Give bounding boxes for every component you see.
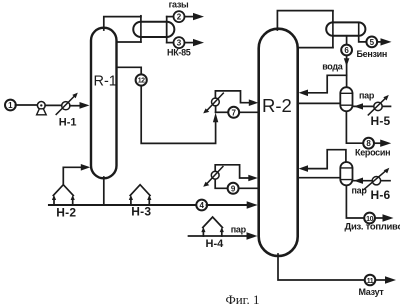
wire 9 to exchanger xyxy=(215,179,227,188)
heat exchanger at 9 xyxy=(203,167,223,187)
wire to stream 2 xyxy=(167,16,174,18)
svg-text:1: 1 xyxy=(8,101,13,110)
svg-text:3: 3 xyxy=(177,39,182,48)
svg-text:Фиг. 1: Фиг. 1 xyxy=(225,292,259,307)
node stream 4 xyxy=(196,200,207,211)
label газы xyxy=(169,0,189,10)
wire R-1 bottoms down xyxy=(103,177,105,205)
label R-2 xyxy=(262,95,292,116)
label вода xyxy=(322,62,344,72)
wire arrow out stream 8 xyxy=(374,140,391,147)
label пар (H-4) xyxy=(231,225,247,235)
svg-text:Н-5: Н-5 xyxy=(371,114,391,128)
wire E2 bottom to stream 6 xyxy=(346,36,348,45)
furnace H-4 xyxy=(201,217,224,236)
svg-text:Н-1: Н-1 xyxy=(59,117,77,129)
column R-1 xyxy=(91,28,117,179)
label Керосин xyxy=(355,148,390,158)
svg-text:5: 5 xyxy=(370,38,375,47)
node stream 7 xyxy=(228,107,239,118)
wire S2 bottoms to stream 10 xyxy=(346,185,364,218)
label пар (H-5) xyxy=(359,90,375,100)
svg-text:Бензин: Бензин xyxy=(357,49,388,59)
node stream 2 xyxy=(174,11,185,22)
svg-text:2: 2 xyxy=(177,13,182,22)
svg-text:НК-85: НК-85 xyxy=(167,48,191,58)
wire 12 down and right xyxy=(141,86,215,144)
wire steam H-4 into R-2 xyxy=(189,232,258,239)
node stream 11 xyxy=(365,275,376,286)
stripper S2 xyxy=(340,162,352,185)
wire feed into R-1 xyxy=(70,102,90,109)
condenser E1 xyxy=(133,22,174,37)
label НК-85 xyxy=(167,48,191,58)
node stream 5 xyxy=(366,37,377,48)
heat exchanger at 7 xyxy=(203,93,223,113)
wire 4 into R-2 xyxy=(207,201,258,208)
wire to stream 3 xyxy=(167,42,174,44)
wire stream 1 to pump xyxy=(15,104,37,106)
wire R-1 overhead riser xyxy=(104,17,141,30)
column R-2 xyxy=(259,29,298,256)
wire arrow out stream 10 xyxy=(375,214,394,221)
svg-text:4: 4 xyxy=(199,201,204,210)
wire arrow out stream 3 xyxy=(185,39,205,46)
wire arrow out stream 11 xyxy=(375,276,396,283)
label Диз. топливо xyxy=(345,222,400,233)
svg-text:Мазут: Мазут xyxy=(359,287,385,297)
svg-text:R-2: R-2 xyxy=(262,95,292,116)
svg-text:12: 12 xyxy=(138,78,145,85)
wire S1 vapor return to R-2 xyxy=(299,75,347,96)
svg-text:пар: пар xyxy=(231,225,247,235)
svg-text:пар: пар xyxy=(352,186,368,196)
wire S2 vapor return to R-2 xyxy=(299,150,346,172)
heater H-5 xyxy=(368,95,389,115)
wire R-2 draw to S1 xyxy=(298,102,341,104)
label Н-3 xyxy=(131,205,151,219)
svg-text:Н-4: Н-4 xyxy=(206,238,225,250)
wire junction to stream 7 xyxy=(216,111,229,113)
wire steam into S1 xyxy=(353,103,391,109)
label Н-4 xyxy=(206,238,225,250)
wire steam into S2 xyxy=(353,178,391,184)
svg-text:Н-3: Н-3 xyxy=(131,205,151,219)
node stream 9 xyxy=(228,183,239,194)
node stream 6 xyxy=(341,45,352,56)
svg-text:Керосин: Керосин xyxy=(355,148,390,158)
furnace H-2 xyxy=(52,185,75,205)
svg-text:пар: пар xyxy=(359,90,375,100)
label пар (H-6) xyxy=(352,186,368,196)
pump P1 xyxy=(37,102,47,115)
wire exchanger to R-2 upper return xyxy=(215,91,258,106)
wire condenser E2 left header down xyxy=(332,11,334,48)
label Мазут xyxy=(359,287,385,297)
node stream 12 xyxy=(136,74,147,85)
wire R-2 overhead riser xyxy=(277,11,333,30)
wire R-2 draw to S2 xyxy=(298,177,341,179)
stripper S1 xyxy=(340,87,352,111)
wire R-2 bottoms to stream 11 xyxy=(278,254,365,280)
condenser E2 xyxy=(326,22,365,35)
label Н-1 xyxy=(59,117,77,129)
wire condenser E1 left header xyxy=(140,16,142,42)
wire condenser E1 right header xyxy=(166,17,168,43)
wire junction up to exchanger xyxy=(215,106,217,113)
wire pump to heater H-1 xyxy=(45,104,62,106)
wire S1 bottoms to stream 8 xyxy=(346,111,363,143)
wire R-1 side draw to 12 xyxy=(117,67,142,74)
arrow up to junction xyxy=(213,113,218,123)
svg-text:6: 6 xyxy=(344,46,349,55)
wire reflux to R-1 xyxy=(117,41,141,43)
wire 7 to R-2 xyxy=(239,111,259,113)
svg-text:R-1: R-1 xyxy=(94,74,117,90)
wire bottoms line to stream 4 xyxy=(49,204,197,206)
wire exchanger return to R-2 xyxy=(215,165,258,182)
node stream 8 xyxy=(363,138,374,149)
node stream 1 xyxy=(5,100,16,111)
label Бензин xyxy=(357,49,388,59)
wire arrow out stream 2 xyxy=(185,13,205,20)
label Н-2 xyxy=(56,206,76,220)
svg-text:газы: газы xyxy=(169,0,189,10)
svg-text:Диз. топливо: Диз. топливо xyxy=(345,222,400,233)
heater H-1 xyxy=(56,93,78,115)
label R-1 xyxy=(94,74,117,90)
svg-text:7: 7 xyxy=(231,108,236,117)
svg-text:Н-6: Н-6 xyxy=(371,188,391,202)
node stream 3 xyxy=(174,37,185,48)
furnace H-3 xyxy=(129,185,152,205)
wire 6 down to stripper S1 xyxy=(344,55,350,87)
svg-text:11: 11 xyxy=(367,278,374,285)
label Н-5 xyxy=(371,114,391,128)
wire E2 to stream 5 xyxy=(359,36,367,42)
heater H-6 xyxy=(364,168,390,190)
svg-text:9: 9 xyxy=(231,184,236,193)
caption Фиг. 1 xyxy=(225,292,259,307)
wire arrow out stream 5 xyxy=(377,38,391,45)
wire R-2 draw to stream 9 xyxy=(239,187,259,189)
wire H-2 to R-1 xyxy=(63,164,90,185)
node stream 10 xyxy=(364,213,375,224)
svg-text:Н-2: Н-2 xyxy=(56,206,76,220)
wire reflux to R-2 xyxy=(298,47,333,49)
svg-text:вода: вода xyxy=(322,62,344,72)
label Н-6 xyxy=(371,188,391,202)
